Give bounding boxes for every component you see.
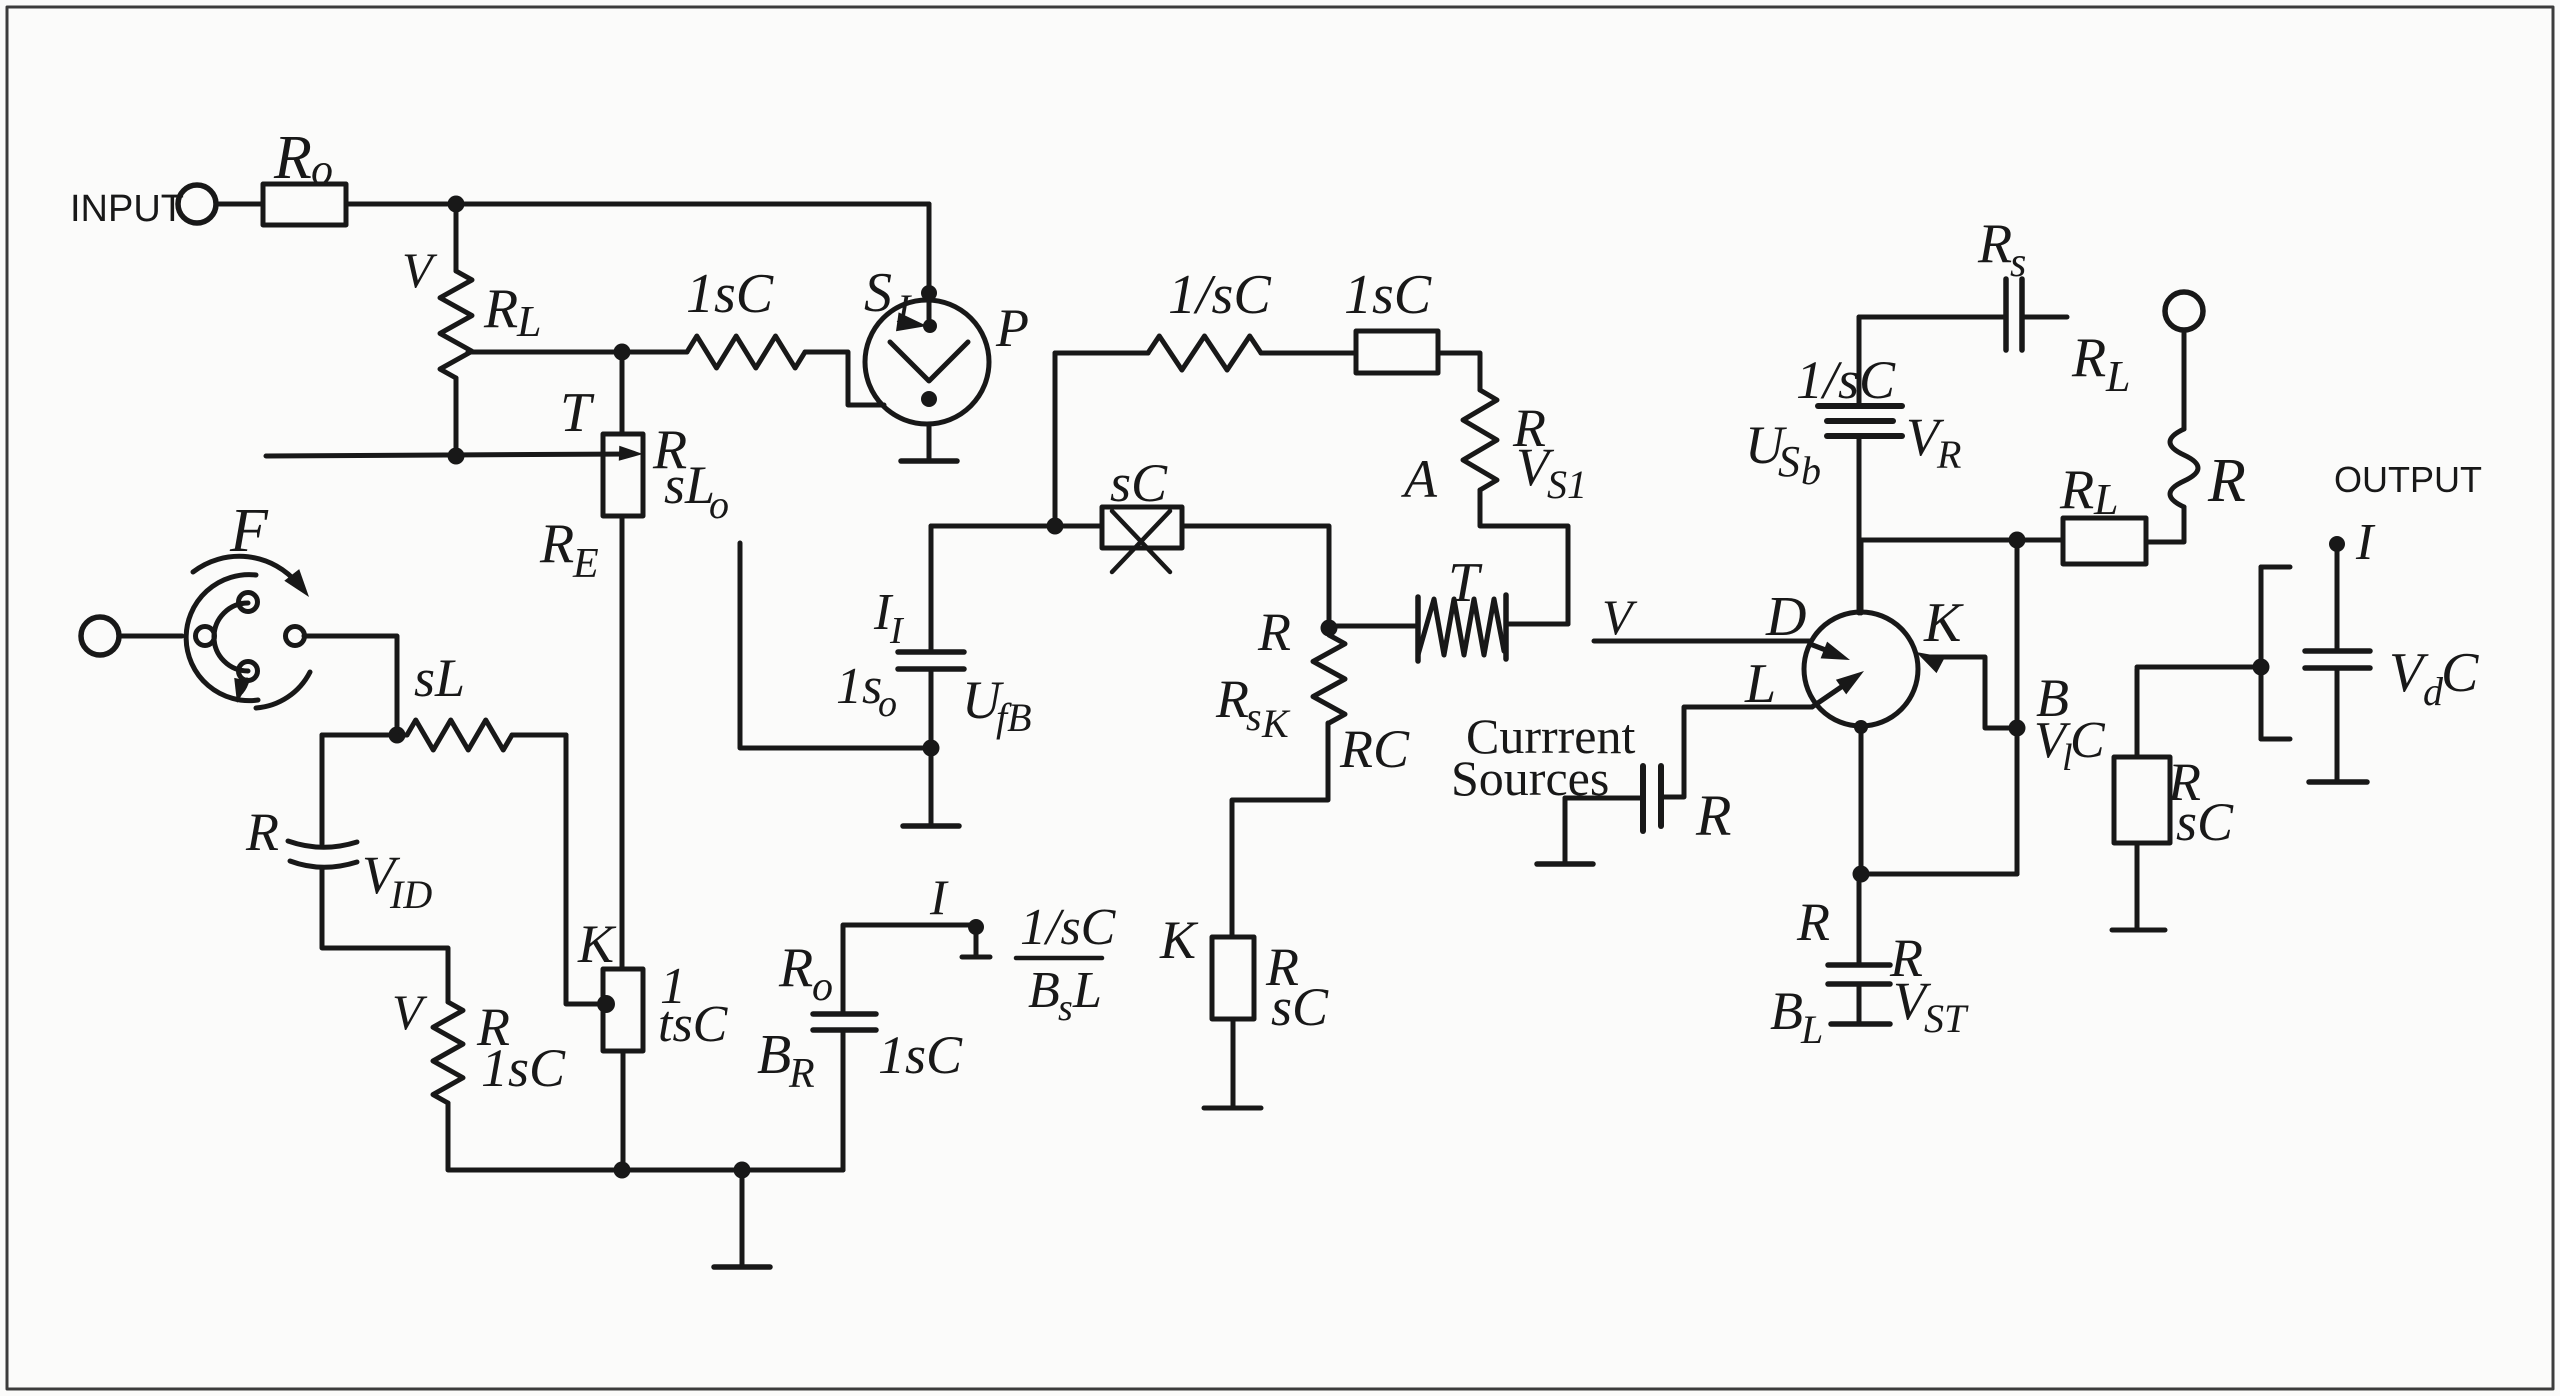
svg-text:R: R <box>1796 892 1830 952</box>
input terminal INPUT <box>70 185 216 230</box>
node junction <box>2009 532 2026 549</box>
ground <box>903 748 959 826</box>
svg-text:R: R <box>2071 327 2106 389</box>
label current sources <box>1451 708 1635 806</box>
node junction <box>2253 659 2270 676</box>
svg-text:B: B <box>757 1024 791 1086</box>
capacitor VdC <box>2305 642 2479 714</box>
svg-text:1sC: 1sC <box>481 1038 566 1098</box>
node junction <box>1257 602 1338 662</box>
wire <box>843 925 976 1014</box>
label R <box>1796 892 1830 952</box>
svg-text:R: R <box>273 124 312 192</box>
ground bar <box>2309 779 2367 785</box>
svg-text:L: L <box>2093 475 2118 524</box>
wire <box>1232 723 1328 937</box>
ground <box>1204 1106 1261 1111</box>
svg-text:sL: sL <box>664 455 715 515</box>
wire <box>1565 796 1643 801</box>
wire <box>2135 843 2140 928</box>
resistor RL <box>402 242 541 378</box>
svg-text:b: b <box>1801 448 1821 493</box>
svg-text:fB: fB <box>996 695 1032 740</box>
wire <box>742 1030 843 1170</box>
inductor sL <box>407 648 512 750</box>
transistor SI <box>864 204 1029 424</box>
svg-text:s: s <box>2010 240 2026 286</box>
node junction <box>614 1162 631 1179</box>
node junction <box>734 1162 751 1179</box>
svg-text:L: L <box>2105 352 2130 401</box>
svg-text:1/sC: 1/sC <box>1168 264 1271 326</box>
svg-text:L: L <box>1072 962 1102 1019</box>
svg-text:T: T <box>560 382 595 444</box>
node junction <box>448 448 465 465</box>
transistor DKL <box>1744 540 1964 734</box>
wire <box>266 446 643 461</box>
node terminal I <box>2329 514 2376 571</box>
svg-text:ST: ST <box>1924 996 1969 1041</box>
svg-text:o: o <box>709 482 729 527</box>
svg-text:sL: sL <box>414 648 465 708</box>
wire <box>454 204 459 271</box>
potentiometer K 1/tsC <box>577 914 729 1053</box>
wire <box>1857 317 1862 613</box>
battery 1/sC VR UsB <box>1745 350 1961 493</box>
node junction <box>1853 866 1870 883</box>
svg-text:B: B <box>1770 981 1803 1041</box>
inductor T <box>1418 552 1506 661</box>
svg-text:C: C <box>2441 642 2479 704</box>
potentiometer R sLo <box>539 382 729 587</box>
wire <box>120 634 182 639</box>
svg-text:R: R <box>1215 669 1249 729</box>
node junction <box>923 740 940 757</box>
wire <box>1859 315 2006 320</box>
wire <box>929 526 934 748</box>
svg-text:ID: ID <box>389 872 432 917</box>
wire <box>397 733 566 738</box>
wire <box>1231 1019 1236 1106</box>
wire <box>2335 668 2340 782</box>
svg-text:B: B <box>1028 962 1060 1019</box>
wire <box>2137 665 2261 670</box>
svg-text:L: L <box>1744 653 1776 715</box>
wire <box>620 352 625 434</box>
wire <box>454 378 459 456</box>
svg-text:R: R <box>539 513 574 575</box>
svg-text:R: R <box>1936 432 1961 477</box>
svg-text:R: R <box>1977 213 2012 275</box>
connector bracket <box>2261 567 2290 739</box>
svg-text:o: o <box>311 145 333 194</box>
svg-text:R: R <box>245 802 279 862</box>
wire <box>448 1103 622 1170</box>
svg-text:R: R <box>778 937 813 999</box>
resistor R sC box <box>1159 910 1329 1037</box>
wire <box>1261 351 1356 356</box>
svg-text:1sC: 1sC <box>878 1025 963 1085</box>
svg-text:o: o <box>812 964 833 1010</box>
svg-text:s: s <box>1246 694 1262 739</box>
label fraction 1/sC BsL <box>1016 899 1117 1029</box>
svg-text:1sC: 1sC <box>686 263 774 325</box>
svg-text:1s: 1s <box>836 658 882 715</box>
wire <box>304 636 397 735</box>
svg-text:1sC: 1sC <box>1344 264 1432 326</box>
inductor R <box>2170 330 2246 515</box>
resistor RsK <box>1215 635 1410 779</box>
wire <box>621 1051 626 1170</box>
svg-text:I: I <box>889 610 905 652</box>
svg-text:o: o <box>878 683 897 725</box>
wire <box>1182 526 1329 628</box>
svg-text:R: R <box>2059 459 2094 521</box>
svg-text:sC: sC <box>1110 453 1168 513</box>
wire <box>620 516 625 969</box>
svg-text:sC: sC <box>2176 792 2234 852</box>
capacitor R (current source) <box>1643 766 1731 848</box>
wire <box>2135 669 2140 757</box>
resistor 1sC box <box>1344 264 1438 373</box>
svg-text:I: I <box>2355 514 2376 571</box>
svg-text:P: P <box>995 298 1029 358</box>
resistor R sC box <box>2114 752 2234 852</box>
wire <box>622 1168 742 1173</box>
node terminal I <box>929 869 990 957</box>
svg-text:R: R <box>1257 602 1291 662</box>
svg-text:1/sC: 1/sC <box>1796 350 1896 410</box>
resistor Ro <box>263 124 346 225</box>
wire tap <box>468 350 622 355</box>
svg-text:OUTPUT: OUTPUT <box>2334 459 2482 500</box>
svg-text:L: L <box>1800 1007 1823 1052</box>
svg-text:L: L <box>516 297 541 346</box>
capacitor Rs <box>1977 213 2130 401</box>
svg-text:C: C <box>2070 712 2106 769</box>
svg-text:R: R <box>1695 783 1731 848</box>
wire <box>1506 622 1568 627</box>
svg-text:T: T <box>1448 552 1483 614</box>
resistor RL box <box>2059 459 2146 564</box>
resistor 1sC <box>622 263 805 368</box>
varistor sC <box>1102 453 1182 572</box>
capacitor R VID <box>245 802 432 917</box>
label V <box>1602 589 1638 645</box>
node junction <box>448 196 465 213</box>
resistor 1/sC <box>1148 264 1271 370</box>
ground <box>714 1170 770 1267</box>
svg-text:S1: S1 <box>1547 462 1587 507</box>
capacitor II 1so UfB <box>836 584 1032 740</box>
K collector wire <box>1916 652 2017 728</box>
resistor R 1sC <box>392 984 566 1103</box>
wire <box>1480 490 1568 624</box>
node junction <box>614 344 631 361</box>
svg-text:I: I <box>896 286 912 331</box>
svg-text:S: S <box>864 262 892 324</box>
svg-text:sC: sC <box>1271 977 1329 1037</box>
wire B line <box>2015 542 2020 874</box>
wire <box>322 868 448 1002</box>
capacitor BR 1sC <box>757 937 963 1097</box>
capacitor BL VST <box>1770 874 1969 1052</box>
wire <box>2335 550 2340 651</box>
wire <box>1334 624 1418 629</box>
wire <box>346 202 929 207</box>
wire emitter <box>1859 726 1864 874</box>
wire <box>1661 707 1812 797</box>
wire <box>2146 507 2184 542</box>
terminal <box>2165 292 2203 330</box>
wire <box>1594 639 1810 644</box>
svg-text:I: I <box>929 869 949 925</box>
svg-text:K: K <box>577 914 617 974</box>
label OUTPUT <box>2334 459 2482 500</box>
node B <box>2009 668 2107 779</box>
svg-text:RC: RC <box>1339 719 1410 779</box>
wire <box>566 735 600 1004</box>
ground <box>901 424 957 461</box>
svg-text:A: A <box>1401 449 1438 509</box>
wire <box>216 202 263 207</box>
wire <box>1055 353 1148 526</box>
svg-text:K: K <box>1923 592 1964 654</box>
svg-text:R: R <box>2207 447 2246 515</box>
node junction <box>1047 518 1064 535</box>
svg-text:K: K <box>1261 701 1291 746</box>
ground <box>1537 798 1593 864</box>
resistor R VS1 <box>1401 390 1587 509</box>
svg-text:tsC: tsC <box>658 996 729 1053</box>
ground <box>2112 928 2165 933</box>
terminal <box>81 617 119 655</box>
rotary switch F <box>186 497 310 708</box>
wire <box>740 543 931 748</box>
wire <box>1438 353 1480 390</box>
svg-text:R: R <box>788 1051 815 1097</box>
wire <box>1859 538 2063 543</box>
svg-text:INPUT: INPUT <box>70 188 184 230</box>
wire <box>1861 872 2017 877</box>
wire <box>2022 315 2067 320</box>
svg-text:K: K <box>1159 910 1199 970</box>
svg-text:S: S <box>1778 437 1800 486</box>
svg-text:s: s <box>1058 987 1073 1029</box>
wire <box>805 352 884 405</box>
wire <box>322 735 397 844</box>
wire <box>931 524 1102 529</box>
svg-text:E: E <box>572 541 599 587</box>
node junction <box>389 727 406 744</box>
svg-text:D: D <box>1765 586 1806 648</box>
svg-text:1/sC: 1/sC <box>1020 899 1117 956</box>
svg-text:R: R <box>483 278 518 340</box>
